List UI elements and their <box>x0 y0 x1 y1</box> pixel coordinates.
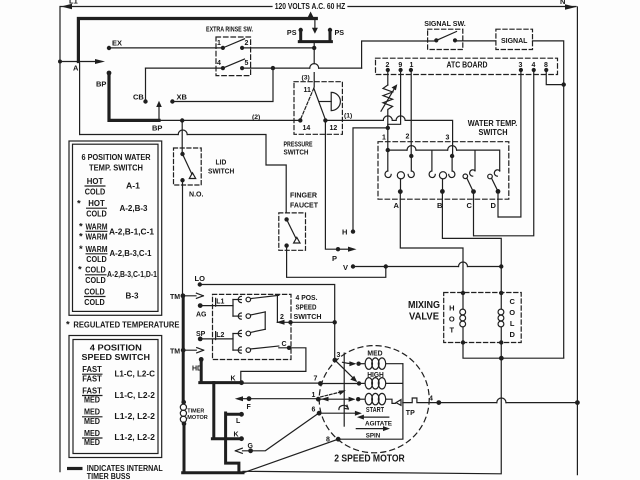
svg-text:3: 3 <box>519 62 523 69</box>
wire: output D to ATC pin 3 drop <box>497 191 499 217</box>
rinse switch lever 4-5 <box>223 59 245 68</box>
node: K upper dot <box>239 380 244 385</box>
wire: output C to ATC pin 4 drop <box>473 192 475 236</box>
terminal K lower <box>239 436 244 441</box>
terminal TM 1 <box>181 293 186 298</box>
svg-text:4: 4 <box>429 396 433 403</box>
wire: WTS pin2 drop to A right contact <box>410 156 412 171</box>
speed switch row2 lever <box>251 312 266 315</box>
svg-text:AGITATE: AGITATE <box>365 421 392 428</box>
node: EX wire junction at PS drop <box>312 46 316 50</box>
legend table 4 position inner border <box>73 340 158 454</box>
wire: EX row to rinse switch contact 1 <box>109 47 223 49</box>
svg-text:D: D <box>491 201 497 210</box>
svg-text:ATC BOARD: ATC BOARD <box>447 61 488 70</box>
wire: PS bracket drop to pressure switch pin 11, hops CB rail <box>313 43 315 48</box>
svg-text:O: O <box>449 315 455 324</box>
svg-text:C: C <box>467 201 473 210</box>
svg-text:MOTOR: MOTOR <box>187 415 208 421</box>
connector: BP up arrow between CB and XB <box>156 101 162 121</box>
WTS section B stem <box>442 179 444 192</box>
wire: rail rinse contact 5 to signal riser with hop over PS drop <box>242 67 310 69</box>
2 speed motor dashed circle <box>319 346 429 453</box>
svg-text:K: K <box>234 432 239 439</box>
SIGNAL dashed box <box>496 29 533 49</box>
wire: AG feed to L1 bracket <box>200 298 233 306</box>
node: COLD coil top dot <box>499 291 503 295</box>
svg-text:2: 2 <box>406 134 410 141</box>
node: 4-way junction COLD line and HOT return <box>499 356 504 361</box>
wire: signal switch to SIGNAL box <box>455 40 496 42</box>
terminal TM 2 <box>181 348 186 353</box>
speed switch row4 lever <box>251 346 279 349</box>
lid switch bottom contact <box>180 178 184 182</box>
svg-text:*: * <box>77 199 81 210</box>
svg-text:G: G <box>248 443 254 450</box>
svg-text:SIGNAL SW.: SIGNAL SW. <box>424 19 466 28</box>
svg-text:L1-C, L2-C: L1-C, L2-C <box>114 368 155 378</box>
node: junction pin4 wire at N line <box>575 400 580 405</box>
wire: ATC pin 8 to signal drop <box>546 70 563 85</box>
L2 bracket vertical <box>232 334 234 351</box>
terminal BP upper dot <box>107 71 112 76</box>
svg-text:TIMER: TIMER <box>187 409 204 415</box>
terminal LO <box>198 282 202 286</box>
connector: PS thick U bracket <box>299 30 331 42</box>
svg-text:B-3: B-3 <box>126 291 139 301</box>
svg-text:2: 2 <box>245 40 249 47</box>
node: pin8 junction on signal drop <box>562 82 566 86</box>
WTS section D lever eye <box>488 174 493 179</box>
pressure switch pin 14 <box>298 118 302 122</box>
wire: thick timer buss TM1 down to timer motor <box>182 296 185 402</box>
wire: WTS pin1 drop to A left contact <box>387 150 389 171</box>
connector: P arrow <box>338 247 357 252</box>
wire: F to motor pin 1 <box>249 398 318 400</box>
node: WTS pin 2 dot <box>409 154 413 158</box>
svg-text:C: C <box>282 341 287 348</box>
wire: V row to COLD with hop over A drop <box>386 266 459 268</box>
WTS section B circle <box>439 172 446 179</box>
wire: HOT bottom to signal drop return <box>463 343 564 359</box>
node: PS bracket right post dot <box>328 28 332 32</box>
svg-text:6 POSITION WATER: 6 POSITION WATER <box>82 152 152 162</box>
rinse switch contact 1 <box>221 46 225 50</box>
node: MED winding start dot <box>356 362 360 366</box>
rinse switch contact 4 <box>221 66 225 70</box>
node: speed switch 2 junction on LO drop <box>333 320 337 324</box>
lid switch top contact <box>180 152 184 156</box>
svg-text:4 POSITION: 4 POSITION <box>90 342 142 352</box>
connector: F arrow <box>242 398 247 400</box>
finger faucet lever <box>287 219 296 238</box>
svg-text:COLD: COLD <box>84 286 105 296</box>
svg-text:REGULATED TEMPERATURE: REGULATED TEMPERATURE <box>73 319 179 329</box>
svg-text:L1-C, L2-2: L1-C, L2-2 <box>114 390 155 400</box>
svg-text:A-2,B-3,C-1: A-2,B-3,C-1 <box>110 248 152 258</box>
lid switch triangle <box>189 173 195 179</box>
L1 bracket vertical <box>232 300 234 317</box>
wire: output 2 to LO drop <box>277 321 334 323</box>
svg-text:START: START <box>366 407 385 414</box>
svg-text:L1-2, L2-2: L1-2, L2-2 <box>114 411 155 421</box>
svg-text:L: L <box>510 319 515 328</box>
pin 1 moving contact arrow <box>321 397 329 402</box>
wire: SP feed to L2 bracket <box>200 332 233 340</box>
svg-text:1: 1 <box>382 135 386 142</box>
node: COLD coil bottom dot <box>499 340 503 344</box>
wire: WTS pin3 drop to B right contact <box>451 142 454 171</box>
connector: TM 2 open arrow <box>186 348 204 353</box>
svg-text:8: 8 <box>544 62 548 69</box>
wire: thick L1 timer buss top rail <box>78 19 316 62</box>
svg-text:3: 3 <box>446 135 450 142</box>
svg-text:L: L <box>236 418 241 425</box>
svg-text:2: 2 <box>386 62 390 69</box>
svg-text:6: 6 <box>312 407 316 414</box>
svg-text:P: P <box>332 254 337 263</box>
svg-text:9: 9 <box>398 62 402 69</box>
svg-text:HOT: HOT <box>87 176 104 186</box>
TP thermal protector notch <box>403 398 439 403</box>
wire: common feed to B left contact <box>431 150 433 171</box>
WTS section C lever eye <box>463 174 468 179</box>
terminal G <box>248 448 253 453</box>
wire: output B to mixing valve COLD <box>442 191 501 293</box>
wire: lid switch to TM1 <box>182 180 184 296</box>
svg-text:FINGER: FINGER <box>290 191 318 200</box>
svg-text:*: * <box>66 319 70 330</box>
svg-text:(1): (1) <box>344 113 352 120</box>
centrifugal shaft line <box>343 353 345 426</box>
svg-text:COLD: COLD <box>85 275 106 285</box>
centrifugal rotation hook <box>339 405 349 409</box>
thermistor zigzag on pin 2 line <box>383 85 393 116</box>
rinse switch contact 2 <box>240 46 244 50</box>
svg-text:LID: LID <box>216 158 227 167</box>
wire: ATC pin 2 drop upper part <box>387 70 389 85</box>
HOT solenoid coil <box>462 293 464 309</box>
svg-text:MED: MED <box>367 351 382 358</box>
svg-text:PS: PS <box>287 28 297 37</box>
node: junction on left vertical at A tap <box>58 60 62 64</box>
MED winding plug arrow <box>343 361 357 366</box>
extra rinse switch dashed box <box>216 37 251 76</box>
wire: rinse contact 2 to PS drop junction <box>242 47 314 49</box>
signal switch contact left <box>434 38 438 42</box>
svg-text:K: K <box>231 376 236 383</box>
terminal HD <box>199 357 204 362</box>
spin direction arrow <box>356 426 390 431</box>
svg-text:2: 2 <box>280 314 284 321</box>
rinse switch lever 1-2 <box>223 39 245 48</box>
svg-text:WARM: WARM <box>86 244 108 254</box>
svg-text:SP: SP <box>196 331 206 338</box>
wire: thick timer buss HD to K row <box>200 359 242 471</box>
HIGH winding coil <box>359 382 364 384</box>
node: motor pin 8 <box>336 437 341 442</box>
terminal XB <box>170 99 174 103</box>
pressure switch pin 12 <box>323 118 327 122</box>
node: junction H-tap on pin2 line <box>386 126 390 130</box>
wire: BP thick timer buss <box>109 73 159 120</box>
legend thick buss sample <box>67 467 83 470</box>
finger faucet bottom contact <box>284 243 288 247</box>
pressure switch lever 11-14 dashed <box>300 88 314 120</box>
pressure switch lever 11-12 <box>314 88 326 119</box>
svg-text:A-2,B-1,C-1: A-2,B-1,C-1 <box>109 227 154 237</box>
svg-text:*: * <box>78 265 82 276</box>
ATC BOARD dashed box <box>376 58 558 74</box>
wire: pin 6 row with plug arrow <box>319 411 362 416</box>
node: timer motor bottom dot <box>182 421 187 426</box>
terminal P dot <box>336 247 340 251</box>
svg-text:N: N <box>560 0 565 6</box>
node: PS bracket left post dot <box>299 28 303 32</box>
svg-text:4: 4 <box>217 60 221 67</box>
node: motor pin 7 <box>318 381 323 386</box>
svg-text:1: 1 <box>410 62 414 69</box>
wire: left border vertical L1 drop <box>59 7 61 472</box>
svg-text:L1-2, L2-2: L1-2, L2-2 <box>114 432 155 442</box>
wire: pin 12 (1) run with hops over pin2/pin9 drops to WTS pin 3 <box>325 119 383 121</box>
pressure switch dashed box <box>294 82 342 135</box>
wire: N right vertical <box>576 7 578 475</box>
wire: lid switch feed <box>181 121 183 155</box>
WTS section A right hook <box>408 171 414 178</box>
wire: pin 7 to HIGH winding <box>320 383 359 385</box>
svg-text:A-1: A-1 <box>126 181 140 191</box>
svg-text:2 SPEED MOTOR: 2 SPEED MOTOR <box>334 454 405 465</box>
WTS section B left hook <box>429 171 435 178</box>
node: output B dot <box>440 189 445 194</box>
wire: top 120V line left segment with L1 arrow <box>61 4 272 9</box>
wire: A arrow tap <box>60 59 105 64</box>
wire: pin 8 diagonal to bottom rail <box>243 439 338 473</box>
wire: LO to motor pin 3 <box>200 285 335 361</box>
svg-text:*: * <box>79 244 83 255</box>
node: HOT coil top dot <box>461 291 465 295</box>
legend table 6 position inner border <box>73 144 159 311</box>
node: HIGH winding start dot <box>357 381 361 385</box>
terminal F <box>247 396 252 401</box>
wire: pin 12 drop to P <box>325 120 338 249</box>
svg-text:COLD: COLD <box>84 297 105 307</box>
svg-text:LO: LO <box>195 274 206 283</box>
WTS section C fixed hook <box>470 170 475 176</box>
node: motor pin 1 <box>316 397 321 402</box>
node: XB riser junction on rail <box>271 66 275 70</box>
wire: thick timer buss to bottom rail <box>183 424 243 473</box>
speed switch row1 stub and contact <box>233 299 241 301</box>
svg-text:1: 1 <box>217 40 221 47</box>
node: output C dot <box>287 346 291 350</box>
signal switch lever <box>436 32 456 41</box>
wire: output C to K junction <box>241 348 306 383</box>
svg-text:WATER TEMP.: WATER TEMP. <box>468 119 518 128</box>
wire: pin 1 row to START winding <box>318 398 349 400</box>
wire: K to motor pin 7 <box>242 382 321 384</box>
wire: common feed to C lever <box>474 150 476 171</box>
wire: BP row thin to pressure switch pin 14 <box>159 119 300 121</box>
4 position speed switch dashed box <box>213 294 292 359</box>
svg-text:SIGNAL: SIGNAL <box>501 36 528 45</box>
svg-text:EX: EX <box>112 39 122 48</box>
pressure switch diaphragm tap <box>319 101 331 103</box>
svg-text:7: 7 <box>314 376 318 383</box>
node: timer motor top dot <box>181 400 186 405</box>
signal switch contact right <box>453 38 457 42</box>
lid switch dashed box <box>174 148 202 185</box>
node: output D dot <box>496 189 501 194</box>
svg-text:14: 14 <box>303 125 311 132</box>
motor internal bus right <box>338 364 403 440</box>
svg-text:EXTRA RINSE SW.: EXTRA RINSE SW. <box>206 25 253 34</box>
svg-text:CB: CB <box>133 93 144 102</box>
wire: pin 2 line below thermistor through hop to WTS pin 1 <box>387 116 389 150</box>
svg-text:C: C <box>509 297 515 306</box>
ATC pin 9 <box>399 68 403 72</box>
pressure switch diaphragm <box>331 92 340 110</box>
svg-text:COLD: COLD <box>86 254 107 264</box>
svg-text:12: 12 <box>330 125 338 132</box>
WTS section A left hook <box>385 171 391 178</box>
terminal EX <box>107 46 111 50</box>
finger faucet dashed box <box>279 213 306 250</box>
wire: G to motor pin 6 <box>251 413 319 451</box>
svg-text:COLD: COLD <box>85 265 106 275</box>
svg-text:5: 5 <box>245 60 249 67</box>
MED winding coil <box>359 363 364 365</box>
thermistor arrow <box>381 84 397 111</box>
START winding plug arrow <box>349 397 356 402</box>
speed switch row1 lever <box>251 295 279 298</box>
ATC pin 2 <box>386 68 390 72</box>
WTS common line with hops over pin2 and pin3 <box>388 149 407 151</box>
legend table 4 position speed switch outer border <box>69 336 162 458</box>
svg-text:AG: AG <box>196 311 207 318</box>
terminal CB <box>143 99 147 103</box>
svg-text:MED: MED <box>84 416 100 426</box>
ATC pin 4 <box>532 68 536 72</box>
terminal AG <box>198 303 203 308</box>
wire: CB rail to rinse contact 4 <box>146 67 223 69</box>
ATC pin 3 <box>519 68 523 72</box>
svg-text:WARM: WARM <box>86 231 108 241</box>
wire: thin continuation below thick rail at x=79.6 <box>79 63 81 135</box>
svg-text:H: H <box>449 304 454 313</box>
svg-text:TM: TM <box>170 349 180 356</box>
speed switch row4 stub and contact <box>233 349 241 351</box>
svg-text:4: 4 <box>532 62 536 69</box>
connector: line cord up arrow at PS <box>308 12 314 19</box>
node: motor pin 4 <box>436 400 441 405</box>
wire: top 120V line right segment with N arrow <box>348 4 576 9</box>
connector: line cord down arrow <box>312 21 318 34</box>
svg-text:SPEED SWITCH: SPEED SWITCH <box>82 352 151 362</box>
node: START winding start dot <box>356 397 360 401</box>
wire: V row to faucet junction <box>353 266 386 268</box>
svg-text:D: D <box>509 330 515 339</box>
WTS section B right hook <box>449 171 455 178</box>
wire: SIGNAL box to right drop <box>533 41 564 358</box>
node: lid switch tap junction <box>180 118 184 122</box>
svg-text:(2): (2) <box>252 114 260 121</box>
svg-text:VALVE: VALVE <box>409 312 439 323</box>
wire: signal branch riser and run to signal switch <box>362 41 437 68</box>
wire: faucet drop to V row <box>287 246 386 278</box>
output 2 arrow <box>276 320 284 325</box>
terminal SP <box>198 337 203 342</box>
WTS section A stem <box>400 179 402 192</box>
finger faucet top contact <box>284 217 288 221</box>
svg-text:SWITCH: SWITCH <box>208 167 234 176</box>
terminal V <box>351 264 355 268</box>
speed switch row3 stub and contact <box>233 333 241 335</box>
svg-text:MED: MED <box>84 437 100 447</box>
ATC pin 1 <box>409 68 413 72</box>
svg-text:A: A <box>73 64 79 73</box>
svg-text:11: 11 <box>304 87 312 94</box>
svg-text:(3): (3) <box>302 75 310 82</box>
svg-text:L1: L1 <box>216 299 224 306</box>
COLD solenoid coil <box>500 293 502 309</box>
svg-text:TEMP. SWITCH: TEMP. SWITCH <box>89 162 143 172</box>
svg-text:COLD: COLD <box>86 208 107 218</box>
svg-text:PS: PS <box>335 28 345 37</box>
svg-text:O: O <box>509 308 515 317</box>
finger faucet triangle <box>294 237 300 243</box>
svg-text:L1: L1 <box>69 0 78 6</box>
wire: pin 4 to N line with hop over COLD drop <box>439 402 497 404</box>
svg-text:SWITCH: SWITCH <box>284 148 309 157</box>
svg-text:A: A <box>394 201 400 210</box>
lid switch lever <box>183 154 192 174</box>
svg-text:L2: L2 <box>216 332 224 339</box>
connector: G open arrow <box>235 448 248 453</box>
svg-text:3: 3 <box>337 352 341 359</box>
WTS section D fixed hook <box>494 170 499 176</box>
svg-text:SWITCH: SWITCH <box>294 312 322 321</box>
speed switch gang bar middle <box>264 312 266 329</box>
rinse switch contact 5 <box>240 66 244 70</box>
svg-text:A-2,B-3,C-1,D-1: A-2,B-3,C-1,D-1 <box>107 269 157 279</box>
speed switch row2 stub and contact <box>233 315 241 317</box>
svg-text:SWITCH: SWITCH <box>479 128 508 137</box>
WTS section C lever <box>467 178 474 192</box>
WTS section A circle <box>397 172 404 179</box>
svg-text:FAUCET: FAUCET <box>290 201 319 210</box>
svg-text:BP: BP <box>96 80 106 89</box>
node: WTS pin 3 dot <box>450 154 454 158</box>
legend table 6 position water temp switch outer border <box>69 141 162 315</box>
svg-text:1: 1 <box>312 392 316 399</box>
svg-text:4 POS.: 4 POS. <box>296 293 318 302</box>
node: motor pin 3 <box>333 358 338 363</box>
wire: ATC pin 9 drop and jog to junction <box>388 70 401 128</box>
node: HOT coil bottom dot <box>461 340 465 344</box>
wire: ATC pin 4 drop to C output <box>474 70 534 236</box>
svg-text:TM: TM <box>170 294 180 301</box>
svg-text:SPIN: SPIN <box>366 433 381 440</box>
svg-text:F: F <box>247 404 252 411</box>
svg-text:BP: BP <box>152 124 162 133</box>
svg-text:MIXING: MIXING <box>408 300 440 311</box>
wire: COLD bottom down to bottom rail (hop drawn on motor wire) <box>243 343 501 474</box>
wire: low rail from thin L1 drop with hop over lid switch wire <box>80 134 179 136</box>
node: output A dot <box>398 189 403 194</box>
svg-text:V: V <box>343 263 348 272</box>
